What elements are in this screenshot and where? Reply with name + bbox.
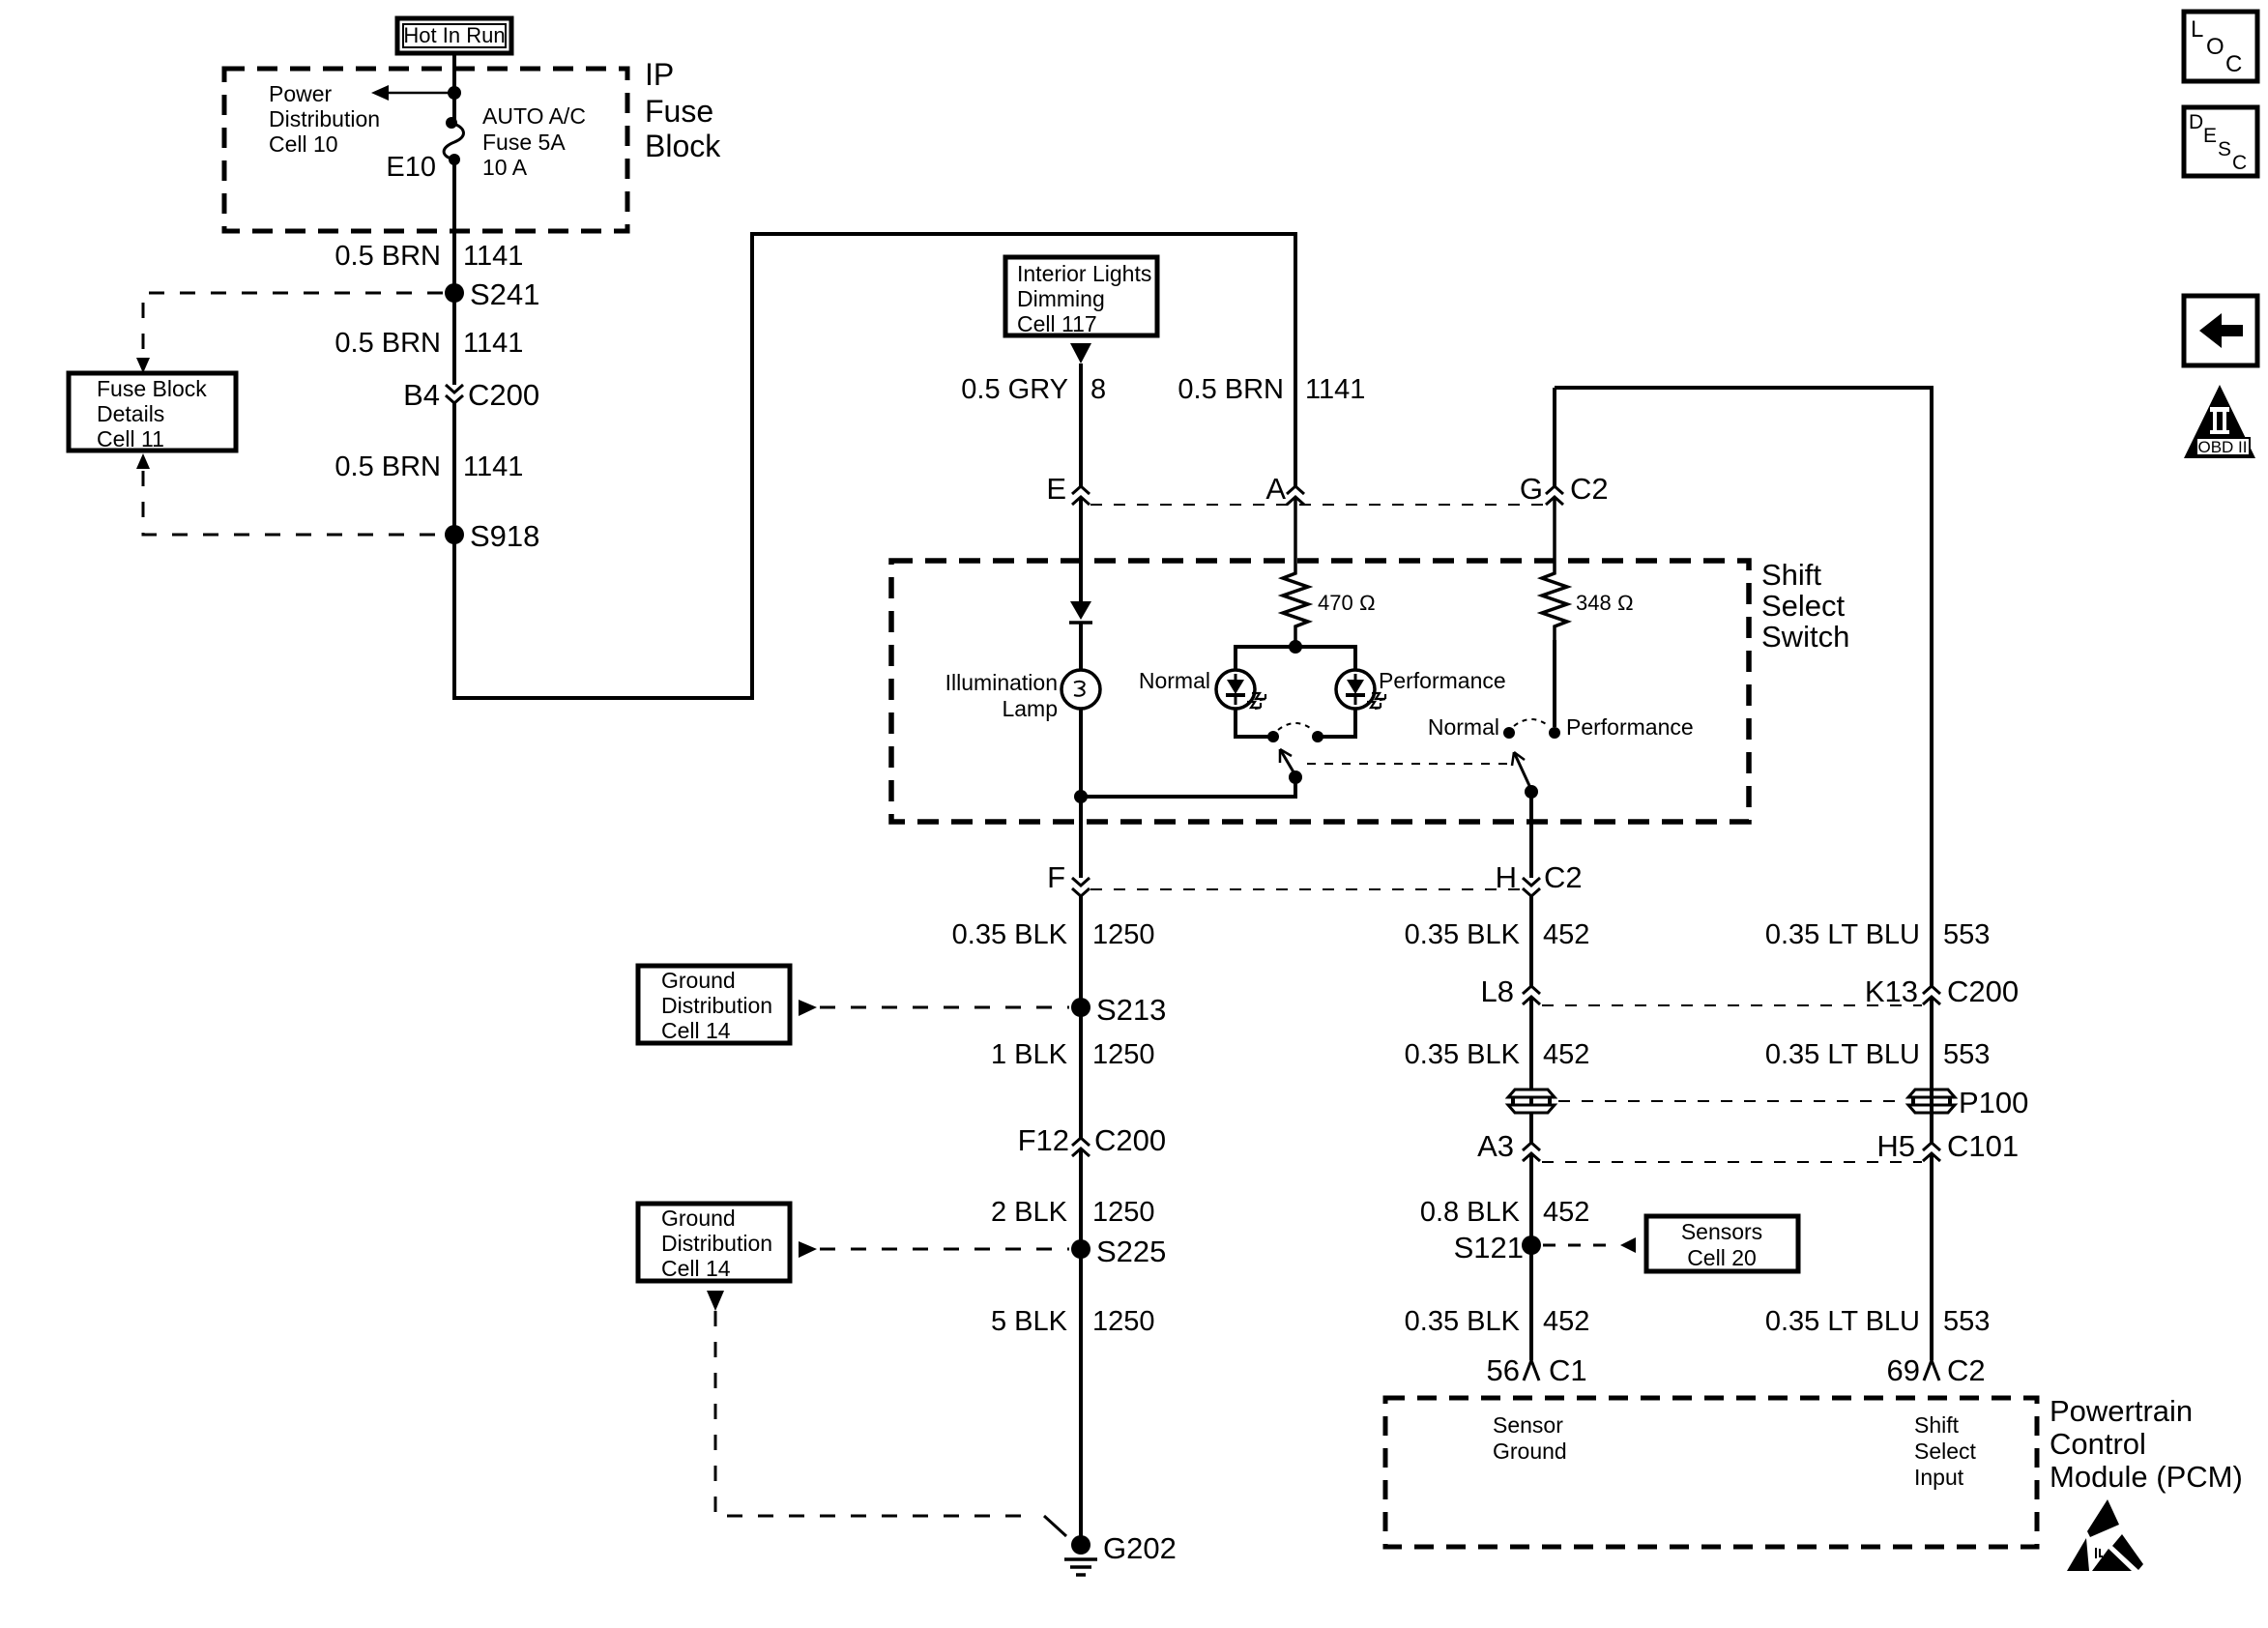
pass-through grommet P100 left [1508, 1090, 1555, 1113]
svg-text:348 Ω: 348 Ω [1576, 591, 1634, 615]
svg-text:Dimming: Dimming [1017, 286, 1105, 311]
svg-text:C: C [2232, 152, 2247, 174]
svg-text:8: 8 [1090, 374, 1106, 405]
wires LEDs down to switch contacts [1236, 709, 1355, 737]
connector pin H5 C101 [1876, 1129, 2019, 1163]
svg-text:Sensor: Sensor [1493, 1412, 1563, 1438]
svg-text:E: E [1046, 472, 1066, 506]
svg-text:Illumination: Illumination [945, 670, 1058, 695]
dashed connector line A3 H5 [1542, 1161, 1922, 1163]
svg-text:5 BLK: 5 BLK [991, 1306, 1068, 1337]
wire H down to PCM pin 56 [1529, 896, 1533, 1360]
svg-text:56: 56 [1487, 1353, 1520, 1387]
wire label 0.8 BLK 452 [1420, 1197, 1590, 1228]
svg-text:0.5 BRN: 0.5 BRN [334, 328, 441, 359]
arrow from Ground box to S213 [799, 1000, 1069, 1016]
label Shift Select Input [1914, 1412, 1977, 1490]
wire right arm down to H [1529, 792, 1533, 878]
wire label 0.35 LT BLU 553 (2) [1765, 1039, 1991, 1070]
svg-text:C200: C200 [1947, 974, 2019, 1008]
connector pin G C2 [1520, 472, 1609, 506]
component name IP Fuse Block [645, 57, 721, 163]
component name Shift Select Switch [1761, 558, 1849, 654]
arrow from Interior Lights box to wire E [1070, 343, 1091, 363]
svg-text:1250: 1250 [1092, 919, 1155, 950]
label Power Distribution Cell 10 [269, 81, 380, 157]
reference box Ground Distribution Cell 14 (upper) [638, 966, 790, 1043]
PCM dashed box [1385, 1398, 2037, 1547]
wire label 0.5 BRN 1141 (2) [334, 328, 523, 359]
Shift Select Switch dashed box [891, 561, 1749, 822]
svg-text:1141: 1141 [463, 328, 523, 359]
wire G chevron up to top rail [1553, 388, 1556, 486]
component name Powertrain Control Module (PCM) [2050, 1394, 2243, 1494]
svg-text:0.35 BLK: 0.35 BLK [1405, 1306, 1521, 1337]
svg-text:Distribution: Distribution [661, 1231, 772, 1256]
svg-text:S213: S213 [1096, 993, 1166, 1027]
wire F down to F12 [1079, 896, 1083, 1138]
svg-text:1250: 1250 [1092, 1039, 1155, 1070]
dashed mechanical link between switch arms [1307, 763, 1508, 765]
dashed connector line L8 K13 [1542, 1004, 1922, 1006]
arrow from lower Ground box to S225 [799, 1241, 1069, 1258]
svg-text:S225: S225 [1096, 1235, 1166, 1268]
wire LED loop [1236, 640, 1355, 670]
svg-text:Cell 117: Cell 117 [1017, 311, 1097, 336]
pass-through grommet P100 right [1908, 1086, 2028, 1119]
svg-text:0.35 BLK: 0.35 BLK [1405, 919, 1521, 950]
svg-text:452: 452 [1543, 1306, 1589, 1337]
splice S918 [445, 519, 539, 553]
svg-text:69: 69 [1887, 1353, 1920, 1387]
svg-text:0.5 BRN: 0.5 BRN [334, 241, 441, 272]
svg-text:Control: Control [2050, 1427, 2146, 1461]
svg-text:L: L [2191, 16, 2203, 43]
svg-text:C2: C2 [1570, 472, 1609, 506]
wire lamp down to F junction [1079, 709, 1083, 878]
wire label 0.5 BRN 1141 (1) [334, 241, 523, 272]
svg-text:S918: S918 [470, 519, 539, 553]
left switch arm [1280, 749, 1302, 784]
label Sensor Ground [1493, 1412, 1567, 1464]
svg-text:Interior Lights: Interior Lights [1017, 261, 1151, 286]
svg-text:Ground: Ground [1493, 1439, 1567, 1464]
svg-text:Normal: Normal [1428, 714, 1499, 740]
dashed leader S121 to Sensors box [1543, 1237, 1636, 1253]
svg-text:553: 553 [1943, 919, 1990, 950]
svg-text:470 Ω: 470 Ω [1318, 591, 1376, 615]
wire label 0.35 LT BLU 553 (3) [1765, 1306, 1991, 1337]
svg-text:Select: Select [1914, 1439, 1977, 1464]
svg-text:S: S [2218, 138, 2231, 160]
connector pin L8 [1481, 974, 1540, 1008]
wire E inside switch [1079, 497, 1083, 602]
connector B4 C200 [403, 378, 539, 412]
svg-text:0.35 BLK: 0.35 BLK [952, 919, 1068, 950]
wire label 0.35 LT BLU 553 (1) [1765, 919, 1991, 950]
svg-text:452: 452 [1543, 1197, 1589, 1228]
svg-text:Block: Block [645, 129, 721, 163]
icon box LOC [2184, 12, 2257, 81]
svg-text:C200: C200 [468, 378, 539, 412]
dashed connector line E A G [1090, 504, 1545, 506]
wire label 0.35 BLK 452 (1) [1405, 919, 1590, 950]
wire G up and across to LT BLU column [1555, 388, 1932, 986]
svg-text:1250: 1250 [1092, 1197, 1155, 1228]
ESD sensitive logo [2067, 1499, 2143, 1571]
labels Normal Performance (right switch) [1428, 714, 1694, 740]
svg-text:Fuse 5A: Fuse 5A [482, 130, 566, 155]
connector pin F12 C200 [1018, 1123, 1167, 1157]
PCM pin 69 C2 [1887, 1353, 1986, 1387]
svg-text:Performance: Performance [1566, 714, 1694, 740]
svg-text:A3: A3 [1477, 1129, 1514, 1163]
wire F12 down to S225 and G202 [1079, 1148, 1083, 1537]
svg-text:Shift: Shift [1761, 558, 1821, 592]
svg-text:0.5 BRN: 0.5 BRN [1178, 374, 1284, 405]
wire label 0.5 BRN 1141 (3) [334, 451, 523, 482]
svg-text:Cell 10: Cell 10 [269, 131, 338, 157]
wire label 1 BLK 1250 [991, 1039, 1155, 1070]
svg-text:S241: S241 [470, 277, 539, 311]
wire label 0.35 BLK 452 (3) [1405, 1306, 1590, 1337]
reference box Fuse Block Details Cell 11 [69, 373, 236, 451]
svg-text:Details: Details [97, 401, 164, 426]
wire label 2 BLK 1250 [991, 1197, 1155, 1228]
splice S241 [445, 277, 539, 311]
resistor 348 ohm [1542, 497, 1634, 640]
PCM pin 56 C1 [1487, 1353, 1587, 1387]
svg-text:C2: C2 [1544, 860, 1583, 894]
svg-text:Ground: Ground [661, 968, 736, 993]
wire label 0.35 BLK 1250 (1) [952, 919, 1155, 950]
icon box left arrow [2184, 296, 2257, 365]
dashed leader S241 to Fuse Block Details box [136, 293, 443, 373]
node: junction on feed wire [448, 86, 461, 100]
wire label 5 BLK 1250 [991, 1306, 1155, 1337]
wire label 0.35 BLK 452 (2) [1405, 1039, 1590, 1070]
svg-text:Cell 14: Cell 14 [661, 1018, 731, 1043]
svg-text:553: 553 [1943, 1039, 1990, 1070]
svg-text:Input: Input [1914, 1465, 1964, 1490]
LED Performance [1336, 670, 1385, 709]
svg-text:H5: H5 [1876, 1129, 1915, 1163]
svg-text:452: 452 [1543, 1039, 1589, 1070]
LED Normal [1216, 670, 1265, 709]
label Illumination Lamp [945, 670, 1058, 721]
svg-text:C101: C101 [1947, 1129, 2019, 1163]
reference box Ground Distribution Cell 14 (lower) [638, 1204, 790, 1281]
ground G202 [1064, 1531, 1177, 1575]
svg-text:Module (PCM): Module (PCM) [2050, 1460, 2243, 1494]
svg-text:G202: G202 [1103, 1531, 1177, 1565]
svg-text:Distribution: Distribution [661, 993, 772, 1018]
svg-text:Switch: Switch [1761, 620, 1849, 654]
svg-text:AUTO A/C: AUTO A/C [482, 103, 586, 129]
wire left switch arm to lamp branch [1081, 777, 1295, 797]
svg-text:Normal: Normal [1139, 668, 1210, 693]
svg-text:Distribution: Distribution [269, 106, 380, 131]
connector pin E [1046, 472, 1090, 506]
svg-text:OBD II: OBD II [2197, 438, 2247, 456]
svg-text:Select: Select [1761, 589, 1846, 623]
svg-text:0.8 BLK: 0.8 BLK [1420, 1197, 1521, 1228]
svg-text:2 BLK: 2 BLK [991, 1197, 1068, 1228]
svg-text:K13: K13 [1865, 974, 1918, 1008]
left switch wiper arc dashed [1278, 723, 1313, 730]
svg-text:1141: 1141 [1305, 374, 1365, 405]
svg-text:Fuse Block: Fuse Block [97, 376, 207, 401]
svg-text:E: E [2203, 125, 2217, 147]
svg-text:1141: 1141 [463, 241, 523, 272]
connector pin F [1047, 860, 1090, 896]
svg-text:F12: F12 [1018, 1123, 1069, 1157]
splice S121 [1454, 1231, 1541, 1265]
svg-text:O: O [2206, 34, 2224, 60]
svg-text:F: F [1047, 860, 1065, 894]
lamp feed arrow symbol [1069, 601, 1092, 623]
connector pin A3 [1477, 1129, 1540, 1163]
fuse label box "Hot In Run" [397, 18, 511, 53]
wire 348 ohm to Performance contact [1553, 640, 1556, 727]
svg-text:Shift: Shift [1914, 1412, 1960, 1438]
icon box DESC [2184, 107, 2257, 176]
svg-text:553: 553 [1943, 1306, 1990, 1337]
svg-text:Hot In Run: Hot In Run [403, 23, 505, 47]
node junction below 470 ohm [1289, 640, 1302, 654]
svg-text:S121: S121 [1454, 1231, 1524, 1265]
reference box Interior Lights Dimming Cell 117 [1005, 257, 1157, 336]
wire S918 down right and up to A branch [454, 234, 1295, 698]
splice S213 [1071, 993, 1166, 1027]
icon OBD II triangle [2184, 385, 2255, 458]
wire label 0.5 GRY 8 [961, 374, 1106, 405]
svg-text:Cell 14: Cell 14 [661, 1256, 731, 1281]
svg-text:Fuse: Fuse [645, 94, 713, 129]
svg-text:Lamp: Lamp [1002, 696, 1058, 721]
connector pin A [1265, 472, 1304, 506]
svg-text:Performance: Performance [1379, 668, 1506, 693]
IP Fuse Block dashed box [224, 69, 627, 231]
splice S225 [1071, 1235, 1166, 1268]
svg-text:C1: C1 [1549, 1353, 1587, 1387]
svg-text:E10: E10 [386, 152, 436, 183]
wire label 0.5 BRN 1141 (A branch) [1178, 374, 1365, 405]
svg-text:C2: C2 [1947, 1353, 1986, 1387]
svg-text:Cell 20: Cell 20 [1687, 1245, 1757, 1270]
resistor 470 ohm [1283, 497, 1376, 640]
svg-text:1250: 1250 [1092, 1306, 1155, 1337]
dashed line P100 [1558, 1100, 1905, 1102]
connector pin H C2 [1496, 860, 1583, 896]
svg-text:Power: Power [269, 81, 333, 106]
right switch arm [1512, 752, 1538, 799]
wire B4 to S918 and down [452, 403, 456, 698]
connector pin K13 C200 [1865, 974, 2019, 1008]
svg-text:0.35 BLK: 0.35 BLK [1405, 1039, 1521, 1070]
svg-text:1141: 1141 [463, 451, 523, 482]
wire from Hot In Run into fuse block [452, 53, 456, 120]
svg-text:C: C [2225, 51, 2242, 77]
svg-text:Ground: Ground [661, 1206, 736, 1231]
svg-text:452: 452 [1543, 919, 1589, 950]
wire arrow to Power Distribution [371, 85, 454, 101]
arrow below lower Ground box to G202 [707, 1291, 1066, 1536]
fuse E10 AUTO A/C [444, 117, 463, 165]
svg-text:0.5 BRN: 0.5 BRN [334, 451, 441, 482]
node junction lamp branch [1074, 790, 1088, 803]
illumination lamp [1061, 670, 1100, 709]
svg-text:0.35 LT BLU: 0.35 LT BLU [1765, 919, 1920, 950]
wire arrow to lamp [1079, 623, 1083, 670]
svg-text:Sensors: Sensors [1681, 1219, 1762, 1244]
dashed leader Fuse Block Details box to S918 [136, 453, 443, 535]
svg-text:P100: P100 [1959, 1086, 2028, 1119]
svg-text:A: A [1265, 472, 1286, 506]
svg-text:0.5 GRY: 0.5 GRY [961, 374, 1068, 405]
svg-text:10 A: 10 A [482, 155, 528, 180]
right switch contact dots [1503, 727, 1560, 739]
svg-text:1 BLK: 1 BLK [991, 1039, 1068, 1070]
svg-text:0.35 LT BLU: 0.35 LT BLU [1765, 1306, 1920, 1337]
fuse value label AUTO A/C Fuse 5A 10 A [482, 103, 586, 180]
svg-text:IP: IP [645, 57, 674, 92]
svg-text:Cell 11: Cell 11 [97, 426, 164, 451]
svg-text:L8: L8 [1481, 974, 1514, 1008]
wire fuse output down to B4 [452, 163, 456, 385]
svg-text:B4: B4 [403, 378, 440, 412]
svg-text:D: D [2189, 111, 2203, 133]
left switch contact dots [1267, 731, 1323, 742]
wire E branch down to connector E [1079, 363, 1083, 486]
right switch wiper arc dashed [1514, 719, 1549, 726]
reference box Sensors Cell 20 [1646, 1216, 1798, 1271]
svg-text:0.35 LT BLU: 0.35 LT BLU [1765, 1039, 1920, 1070]
svg-text:G: G [1520, 472, 1543, 506]
dashed connector line F H [1090, 888, 1522, 890]
wire K13 down to PCM pin 69 [1930, 997, 1934, 1360]
svg-text:Powertrain: Powertrain [2050, 1394, 2193, 1428]
svg-text:C200: C200 [1094, 1123, 1166, 1157]
